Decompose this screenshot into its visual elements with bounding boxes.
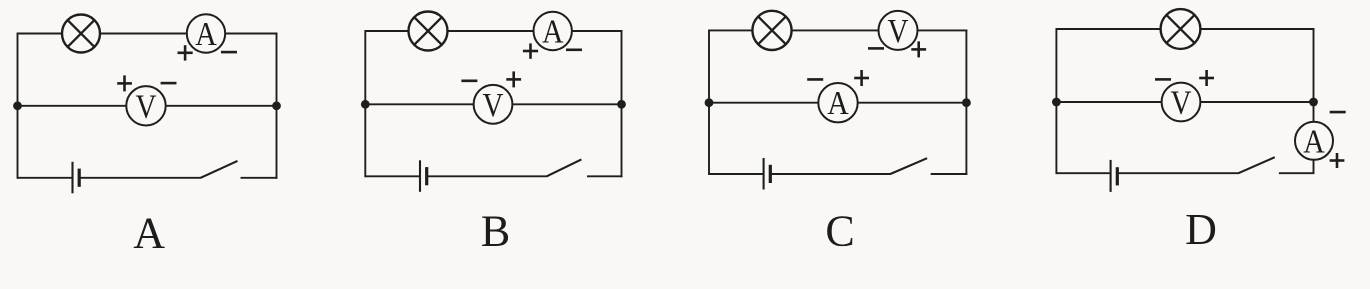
svg-text:C: C bbox=[825, 206, 854, 255]
wire C mid-right rail bbox=[858, 102, 967, 104]
battery C bbox=[764, 158, 771, 190]
wire A bottom-left rail bbox=[18, 177, 72, 179]
svg-text:A: A bbox=[542, 14, 564, 51]
voltmeter V2 bbox=[474, 85, 513, 124]
svg-text:D: D bbox=[1185, 205, 1217, 254]
plus label of voltmeter V2 bbox=[506, 71, 521, 87]
wire B bottom-middle rail bbox=[428, 175, 547, 177]
battery D bbox=[1111, 160, 1118, 192]
wire C top-right rail bbox=[918, 29, 968, 31]
wire B bottom-left rail bbox=[365, 175, 419, 177]
lamp A bbox=[62, 15, 100, 53]
ammeter A4 bbox=[1295, 122, 1333, 161]
wire C top-left rail bbox=[709, 29, 752, 31]
wire C right vertical bbox=[965, 29, 967, 175]
ammeter A3 bbox=[818, 83, 857, 122]
svg-text:A: A bbox=[827, 85, 849, 122]
ammeter A2 bbox=[534, 12, 572, 51]
wire A mid-left rail bbox=[18, 105, 127, 107]
minus label of ammeter A1 bbox=[221, 51, 237, 54]
wire A top-right rail bbox=[225, 33, 277, 35]
svg-text:V: V bbox=[136, 88, 157, 125]
node B right junction bbox=[617, 100, 626, 109]
svg-text:A: A bbox=[1303, 123, 1325, 160]
voltmeter V1 bbox=[126, 86, 165, 125]
plus label of ammeter A4 bbox=[1330, 153, 1345, 168]
minus label of voltmeter V4 bbox=[1155, 78, 1171, 81]
node A left junction bbox=[13, 101, 22, 110]
wire C left vertical bbox=[708, 29, 710, 175]
minus label of voltmeter V3 bbox=[868, 47, 884, 50]
plus label of voltmeter V3 bbox=[911, 41, 926, 57]
battery A bbox=[73, 162, 80, 194]
wire D left vertical bbox=[1055, 28, 1057, 174]
wire C bottom-middle rail bbox=[771, 173, 891, 175]
svg-text:A: A bbox=[133, 209, 165, 258]
voltmeter V3 bbox=[879, 11, 918, 50]
minus label of ammeter A4 bbox=[1330, 111, 1346, 114]
battery B bbox=[420, 160, 427, 192]
wire B left vertical bbox=[364, 30, 366, 177]
wire D mid-left rail bbox=[1056, 101, 1161, 103]
minus label of ammeter A2 bbox=[566, 48, 582, 51]
wire A right vertical bbox=[276, 33, 278, 179]
wire A mid-right rail bbox=[166, 105, 277, 107]
wire D right vertical upper bbox=[1313, 28, 1315, 122]
node A right junction bbox=[272, 101, 281, 110]
wire D top-right rail bbox=[1200, 28, 1314, 30]
wire A top-left rail bbox=[18, 33, 63, 35]
ammeter A1 bbox=[187, 14, 225, 53]
switch C bbox=[890, 158, 967, 174]
node C right junction bbox=[962, 98, 971, 107]
wire A left vertical bbox=[17, 33, 19, 179]
node D right junction bbox=[1309, 98, 1318, 107]
svg-text:V: V bbox=[1171, 85, 1192, 122]
voltmeter V4 bbox=[1162, 83, 1201, 122]
plus label of voltmeter V1 bbox=[117, 75, 132, 91]
svg-text:V: V bbox=[888, 13, 909, 50]
svg-text:V: V bbox=[483, 87, 504, 124]
svg-text:A: A bbox=[195, 16, 217, 53]
wire C mid-left rail bbox=[709, 102, 818, 104]
wire C top-middle rail bbox=[792, 29, 879, 31]
wire D bottom-left rail bbox=[1056, 172, 1109, 174]
lamp B bbox=[409, 12, 448, 51]
wire B top-right rail bbox=[572, 30, 623, 32]
plus label of ammeter A1 bbox=[178, 45, 193, 60]
wire B top-middle rail bbox=[448, 30, 534, 32]
wire A top-middle rail bbox=[100, 33, 187, 35]
node D left junction bbox=[1052, 98, 1061, 107]
wire B top-left rail bbox=[365, 30, 408, 32]
node C left junction bbox=[705, 98, 714, 107]
node B left junction bbox=[361, 100, 370, 109]
wire D mid-right rail bbox=[1200, 101, 1313, 103]
wire B mid-left rail bbox=[365, 103, 473, 105]
minus label of ammeter A3 bbox=[807, 78, 823, 81]
wire D top-left rail bbox=[1056, 28, 1161, 30]
lamp C bbox=[752, 11, 791, 50]
minus label of voltmeter V2 bbox=[461, 80, 477, 83]
wire C bottom-left rail bbox=[709, 173, 763, 175]
wire B right vertical bbox=[621, 30, 623, 177]
wire A bottom-middle rail bbox=[80, 177, 201, 179]
switch D bbox=[1238, 157, 1274, 173]
lamp D bbox=[1161, 9, 1201, 49]
wire B mid-right rail bbox=[512, 103, 621, 105]
plus label of voltmeter V4 bbox=[1199, 70, 1214, 86]
plus label of ammeter A3 bbox=[854, 70, 869, 86]
switch A bbox=[201, 161, 278, 178]
wire D ammeter-to-bottom bbox=[1279, 160, 1314, 173]
svg-text:B: B bbox=[481, 206, 510, 255]
switch B bbox=[547, 159, 623, 176]
plus label of ammeter A2 bbox=[523, 43, 538, 58]
minus label of voltmeter V1 bbox=[161, 82, 177, 85]
wire D bottom-middle rail bbox=[1118, 172, 1239, 174]
